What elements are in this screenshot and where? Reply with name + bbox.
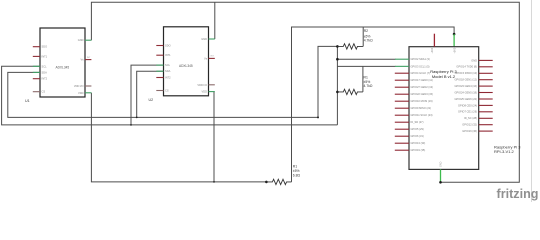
wire R3 right riser up and across to RPi 5V	[292, 27, 455, 182]
node junction at RPi top wire	[453, 33, 456, 36]
wire green drop to RPi top pin	[453, 34, 455, 47]
svg-text:GPIO9 MISO (21): GPIO9 MISO (21)	[411, 106, 432, 110]
svg-text:GPIO13 (33): GPIO13 (33)	[411, 141, 426, 145]
svg-text:VDD I/O: VDD I/O	[74, 84, 84, 88]
svg-text:GPIO15 RXD0 (10): GPIO15 RXD0 (10)	[455, 71, 477, 75]
node junction bottom GND	[439, 181, 442, 184]
svg-text:GPIO10 MOSI (19): GPIO10 MOSI (19)	[411, 99, 433, 103]
node junction U2-VDD / bottom run	[213, 181, 215, 183]
svg-text:GND: GND	[471, 58, 477, 62]
wire center riser through R1/R2 left dots	[336, 46, 338, 125]
node junction U2 SDA on rail	[136, 117, 138, 119]
pin stub RPi top 3V3	[433, 34, 435, 47]
node junction U2 SCL on rail	[130, 124, 132, 126]
svg-text:GPIO12 (32): GPIO12 (32)	[462, 123, 477, 127]
svg-text:fritzing: fritzing	[497, 187, 539, 201]
svg-text:R1: R1	[293, 165, 297, 169]
resistor R2 4.7k	[336, 45, 339, 48]
wire U2 VDD riser down	[213, 92, 215, 182]
svg-text:GPIO24 GEN5 (18): GPIO24 GEN5 (18)	[455, 90, 478, 94]
svg-text:SCL: SCL	[42, 64, 48, 68]
svg-text:ADXL345: ADXL345	[179, 64, 193, 68]
svg-text:SDA: SDA	[165, 69, 171, 73]
pin stubs U2 right	[209, 39, 215, 92]
svg-text:GPIO19 (35): GPIO19 (35)	[411, 148, 426, 152]
svg-text:U2: U2	[149, 98, 154, 102]
resistor R3 6.8ohm	[266, 179, 291, 184]
svg-text:GPIO4 GCLK (7): GPIO4 GCLK (7)	[411, 71, 431, 75]
svg-text:SCL: SCL	[165, 63, 171, 67]
svg-text:GPIO3 SCL1 (5): GPIO3 SCL1 (5)	[411, 64, 430, 68]
svg-text:+3V3: +3V3	[431, 47, 434, 53]
svg-text:GPIO23 GEN4 (16): GPIO23 GEN4 (16)	[455, 84, 478, 88]
svg-text:GPIO11 SCLK (23): GPIO11 SCLK (23)	[411, 113, 433, 117]
node junction R3 left	[265, 181, 268, 184]
svg-text:4.7kΩ: 4.7kΩ	[364, 84, 373, 88]
svg-text:INT2: INT2	[165, 76, 171, 80]
svg-text:ID_SC (28): ID_SC (28)	[464, 116, 477, 120]
svg-text:GPIO22 GEN3 (15): GPIO22 GEN3 (15)	[411, 92, 434, 96]
svg-text:GPIO2 SDA1 (3): GPIO2 SDA1 (3)	[411, 57, 430, 61]
svg-text:GPIO27 GEN2 (13): GPIO27 GEN2 (13)	[411, 85, 434, 89]
IC U1 ADXL345	[25, 28, 85, 103]
svg-text:SDO: SDO	[165, 44, 171, 48]
IC U3 Raspberry Pi 3	[409, 47, 521, 170]
svg-text:GPIO14 TXD0 (8): GPIO14 TXD0 (8)	[456, 65, 477, 69]
pin labels RPi right	[455, 58, 478, 133]
resistor R1 4.7k	[336, 91, 339, 94]
wire SDA rail riser up to R2	[318, 46, 337, 117]
wire U2 SDA drop	[137, 71, 164, 117]
wire R1 right riser to line B	[362, 66, 364, 92]
svg-text:GPIO8 CE0 (24): GPIO8 CE0 (24)	[458, 103, 477, 107]
wire power: U1 VDD down, bottom-left run to R3	[91, 93, 266, 182]
svg-text:GND: GND	[440, 161, 443, 167]
pin stubs RPi left unconnected	[395, 73, 409, 150]
svg-text:ADXL345: ADXL345	[56, 65, 70, 69]
node rail corner blob	[317, 116, 319, 118]
wire SCL net: U1 pin to far-left, down, rail to right	[2, 66, 338, 125]
svg-text:GPIO6 (31): GPIO6 (31)	[411, 134, 424, 138]
value label R3	[293, 165, 301, 178]
pin stubs RPi right unconnected	[479, 60, 493, 131]
svg-text:SDA: SDA	[42, 70, 48, 74]
svg-text:GND: GND	[78, 38, 84, 42]
svg-text:INT1: INT1	[165, 53, 171, 57]
value label R1	[364, 75, 373, 88]
svg-text:CS: CS	[42, 90, 46, 94]
svg-text:GPIO17 GEN0 (11): GPIO17 GEN0 (11)	[411, 78, 433, 82]
canvas edge line right	[531, 0, 533, 202]
wire GND top bus	[91, 2, 519, 182]
svg-text:GPIO25 GEN6 (22): GPIO25 GEN6 (22)	[455, 97, 478, 101]
svg-text:GPIO16 (36): GPIO16 (36)	[462, 129, 477, 133]
svg-text:CS: CS	[165, 89, 169, 93]
svg-text:VDD: VDD	[78, 91, 84, 95]
svg-text:VDD: VDD	[202, 90, 208, 94]
wire SDA net: U1 pin to left, down, rail to right	[8, 72, 318, 117]
svg-text:Model B v1.2: Model B v1.2	[432, 74, 456, 79]
svg-text:R2: R2	[364, 29, 368, 33]
pin labels RPi left	[411, 57, 434, 152]
wire U2 SCL drop	[131, 65, 164, 125]
pin labels U2	[165, 37, 208, 94]
value label R2	[364, 29, 373, 42]
svg-text:GND: GND	[201, 37, 207, 41]
svg-text:GPIO7 CE1 (26): GPIO7 CE1 (26)	[458, 110, 477, 114]
svg-text:R1: R1	[364, 75, 368, 79]
svg-text:SDO: SDO	[42, 45, 48, 49]
wire R2 right riser to power line	[362, 27, 364, 46]
wire line B to RPi SCL pin	[337, 65, 395, 67]
svg-text:GPIO5 (29): GPIO5 (29)	[411, 127, 424, 131]
pin stubs U1 right	[85, 40, 91, 93]
svg-text:+5V0: +5V0	[453, 47, 456, 53]
svg-text:INT1: INT1	[42, 54, 48, 58]
node junction line A left	[336, 58, 339, 61]
svg-text:U1: U1	[25, 99, 30, 103]
pin stub RPi bottom GND (green wire)	[440, 169, 442, 182]
svg-text:ID_SD (27): ID_SD (27)	[411, 120, 424, 124]
svg-text:INT2: INT2	[42, 77, 48, 81]
wire U2 GND riser	[214, 2, 216, 39]
pin stubs RPi left connected (SDA/SCL)	[395, 59, 409, 66]
svg-text:6.8Ω: 6.8Ω	[293, 173, 301, 177]
svg-text:GPIO18 GEN1 (12): GPIO18 GEN1 (12)	[455, 78, 478, 82]
svg-text:VDD I/O: VDD I/O	[197, 83, 207, 87]
pin labels U1	[42, 38, 85, 95]
IC U2 ADXL345	[149, 27, 209, 102]
svg-text:RPI-3-V1.2: RPI-3-V1.2	[494, 149, 515, 154]
svg-text:4.7kΩ: 4.7kΩ	[364, 39, 373, 43]
wire line A to RPi SDA pin	[337, 58, 395, 60]
pin stubs U2 left	[156, 46, 163, 91]
pin stubs U1 left	[33, 47, 40, 92]
